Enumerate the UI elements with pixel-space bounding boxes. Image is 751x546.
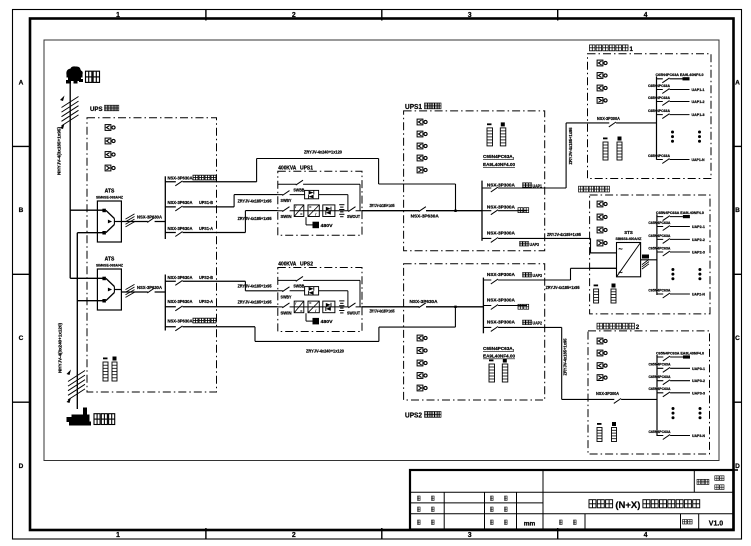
svg-text:NSX-3P300A: NSX-3P300A: [596, 391, 619, 396]
svg-text:(N+X): (N+X): [615, 500, 640, 510]
svg-text:SWIN: SWIN: [281, 214, 292, 219]
svg-text:UAP1-2: UAP1-2: [692, 99, 706, 104]
svg-text:C65N4PC63A: C65N4PC63A: [648, 96, 670, 100]
svg-text:NSX-3P300A: NSX-3P300A: [487, 272, 516, 277]
svg-text:ZRYJV-4x185+1x95: ZRYJV-4x185+1x95: [546, 285, 581, 290]
svg-text:NSX-3P630A: NSX-3P630A: [168, 275, 194, 280]
svg-text:ZRYJV-4x185+1x95: ZRYJV-4x185+1x95: [238, 216, 273, 221]
svg-text:C65N4PC63A: C65N4PC63A: [648, 221, 670, 225]
svg-text:UAP2-N: UAP2-N: [692, 292, 705, 297]
svg-text:~: ~: [619, 247, 623, 254]
svg-text:ZRYJV-4x185+1x95: ZRYJV-4x185+1x95: [370, 309, 395, 314]
svg-text:SIM6S3-400A/4Z: SIM6S3-400A/4Z: [616, 237, 643, 241]
svg-text:=: =: [300, 309, 302, 313]
svg-text:NSX-3P630A: NSX-3P630A: [168, 226, 194, 231]
svg-text:UPS1: UPS1: [405, 102, 422, 111]
svg-text:UPS: UPS: [90, 106, 103, 113]
svg-text:UAP2-3: UAP2-3: [692, 250, 706, 255]
svg-text:D: D: [19, 463, 24, 470]
svg-text:A: A: [19, 80, 24, 87]
svg-text:UAP3: UAP3: [530, 242, 540, 247]
svg-text:ZRYJV-4x240+1x120: ZRYJV-4x240+1x120: [304, 150, 343, 155]
svg-text:ZRYJV-4x240+1x120: ZRYJV-4x240+1x120: [306, 349, 345, 354]
svg-text:ZRYJV-4x185+1x95: ZRYJV-4x185+1x95: [238, 299, 273, 304]
svg-text:C65N4PC63A: C65N4PC63A: [648, 109, 670, 113]
svg-text:NSX-3P630A: NSX-3P630A: [168, 319, 194, 324]
svg-text:NSX-3P630A: NSX-3P630A: [410, 299, 439, 304]
svg-text:UAP2-2: UAP2-2: [692, 237, 706, 242]
svg-text:NSX-3P300A: NSX-3P300A: [487, 320, 516, 325]
svg-text:1: 1: [116, 532, 120, 539]
svg-text:UAP3-1: UAP3-1: [692, 366, 706, 371]
svg-text:SWIN: SWIN: [281, 310, 292, 315]
svg-text:ATS: ATS: [105, 256, 115, 262]
svg-text:UAP3-2: UAP3-2: [692, 378, 706, 383]
svg-text:UPS2-B: UPS2-B: [199, 275, 213, 280]
svg-text:NSX-3P630A: NSX-3P630A: [137, 285, 163, 290]
svg-text:400KVA: 400KVA: [278, 262, 296, 268]
svg-text:SWBY: SWBY: [281, 294, 292, 299]
svg-text:SWBB: SWBB: [293, 284, 304, 289]
svg-text:=: =: [309, 205, 311, 209]
svg-text:2: 2: [636, 324, 640, 331]
svg-text:C: C: [735, 335, 740, 342]
svg-text:C65N4PC63A: C65N4PC63A: [649, 375, 671, 379]
svg-text:NSX-3P630A: NSX-3P630A: [137, 215, 163, 220]
svg-text:C65N4PC63A: C65N4PC63A: [648, 154, 670, 158]
svg-text:NSX-3P300A: NSX-3P300A: [487, 298, 516, 303]
svg-text:/: /: [315, 309, 316, 313]
svg-text:STS: STS: [624, 230, 633, 235]
svg-text:C65N4PC63A: C65N4PC63A: [648, 246, 670, 250]
svg-text:400KVA: 400KVA: [278, 166, 296, 172]
svg-text:B: B: [19, 207, 24, 214]
svg-text:NSX-3P630A: NSX-3P630A: [168, 176, 194, 181]
svg-text:UPS1: UPS1: [300, 166, 313, 172]
svg-text:NHYJV-4(3x185+1x95): NHYJV-4(3x185+1x95): [57, 126, 62, 175]
svg-text:4: 4: [644, 12, 648, 19]
svg-text:mm: mm: [524, 521, 536, 528]
svg-text:ZRYJV-4x185+1x95: ZRYJV-4x185+1x95: [238, 284, 273, 289]
svg-text:1: 1: [116, 12, 120, 19]
svg-text:/: /: [295, 301, 296, 305]
svg-text:UAP1-3: UAP1-3: [692, 112, 706, 117]
svg-text:C65N4PC63A: C65N4PC63A: [648, 288, 670, 292]
svg-text:SWBB: SWBB: [293, 187, 304, 192]
svg-text:NSX-3P630A: NSX-3P630A: [168, 299, 194, 304]
svg-text:UAP2: UAP2: [533, 321, 543, 326]
svg-text:/: /: [315, 213, 316, 217]
svg-text:ATS: ATS: [105, 188, 115, 194]
svg-text:C65N4PC63A EA9L40NF4.0: C65N4PC63A EA9L40NF4.0: [656, 211, 704, 215]
svg-text:480V: 480V: [321, 319, 333, 324]
svg-text:V1.0: V1.0: [709, 521, 724, 528]
svg-text:UPS1-A: UPS1-A: [199, 226, 214, 231]
svg-text:SWBY: SWBY: [281, 198, 292, 203]
svg-text:ZRYJV-4x185+1x95: ZRYJV-4x185+1x95: [563, 338, 568, 376]
svg-text:4: 4: [644, 532, 648, 539]
svg-text:C65N4PC63A: C65N4PC63A: [648, 84, 670, 88]
svg-text:C65N4PC63A: C65N4PC63A: [649, 387, 671, 391]
svg-text:UPS2: UPS2: [300, 262, 313, 268]
svg-text:480V: 480V: [321, 223, 333, 228]
svg-text:ZRYJV-4x185+1x95: ZRYJV-4x185+1x95: [568, 127, 573, 165]
svg-text:=: =: [300, 213, 302, 217]
svg-text:2: 2: [292, 12, 296, 19]
svg-text:D: D: [735, 463, 740, 470]
svg-text:/: /: [295, 205, 296, 209]
svg-text:SIM6SE-063A/4Z: SIM6SE-063A/4Z: [96, 263, 124, 267]
svg-text:SIM6SE-063A/4Z: SIM6SE-063A/4Z: [96, 195, 124, 199]
svg-text:UAP3-N: UAP3-N: [692, 433, 705, 438]
svg-text:UAP3: UAP3: [533, 273, 543, 278]
svg-text:NSX-3P300A: NSX-3P300A: [487, 183, 516, 188]
svg-text:C: C: [19, 335, 24, 342]
svg-text:NSX-3P300A: NSX-3P300A: [487, 205, 516, 210]
svg-text:=: =: [309, 301, 311, 305]
svg-text:C65N4PC63A: C65N4PC63A: [649, 363, 671, 367]
svg-text:3: 3: [468, 532, 472, 539]
svg-text:C65N4PC63A: C65N4PC63A: [648, 234, 670, 238]
svg-text:UPS2-A: UPS2-A: [199, 299, 214, 304]
svg-text:C65N4PC63A: C65N4PC63A: [649, 430, 671, 434]
svg-text:~: ~: [619, 270, 623, 277]
svg-text:NSX-3P300A: NSX-3P300A: [597, 116, 620, 121]
svg-text:UAP3-3: UAP3-3: [692, 390, 706, 395]
svg-text:NSX-3P630A: NSX-3P630A: [168, 200, 194, 205]
svg-text:A: A: [735, 80, 740, 87]
svg-text:UAP1-1: UAP1-1: [692, 87, 706, 92]
svg-text:C65N4PC63A EA9L40NF4.0: C65N4PC63A EA9L40NF4.0: [656, 73, 704, 77]
svg-text:UPS2: UPS2: [405, 410, 422, 419]
svg-text:2: 2: [292, 532, 296, 539]
svg-text:3: 3: [468, 12, 472, 19]
svg-text:NSX-3P630A: NSX-3P630A: [411, 214, 440, 219]
svg-text:ZRYJV-4x185+1x95: ZRYJV-4x185+1x95: [370, 203, 395, 208]
svg-text:UAP1-N: UAP1-N: [692, 157, 705, 162]
svg-text:SWOUT: SWOUT: [347, 214, 360, 219]
svg-text:B: B: [735, 207, 740, 214]
svg-text:NSX-3P300A: NSX-3P300A: [487, 230, 516, 235]
svg-text:ZRYJV-4x185+1x95: ZRYJV-4x185+1x95: [547, 232, 582, 237]
svg-text:1: 1: [630, 46, 634, 53]
svg-text:NHYJV-4(3x240+1x120): NHYJV-4(3x240+1x120): [58, 322, 63, 373]
svg-text:UPS1-B: UPS1-B: [199, 200, 213, 205]
svg-text:C65N4PC63A EA9L40NF4.0: C65N4PC63A EA9L40NF4.0: [656, 351, 704, 355]
svg-text:ZRYJV-4x185+1x95: ZRYJV-4x185+1x95: [238, 198, 273, 203]
svg-text:UAP2-1: UAP2-1: [692, 224, 706, 229]
svg-text:SWOUT: SWOUT: [347, 310, 360, 315]
